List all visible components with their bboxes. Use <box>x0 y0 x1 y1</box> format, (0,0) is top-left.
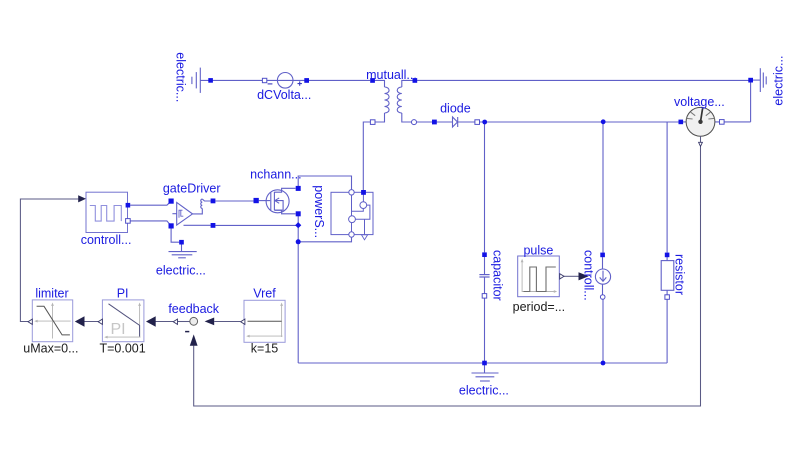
wire top-left (ground to dCVoltage) <box>200 79 262 81</box>
svg-text:nchann...: nchann... <box>250 168 301 182</box>
dc voltage source dCVoltage <box>262 73 309 89</box>
wire current source bottom <box>602 299 604 363</box>
node current source top <box>600 253 605 258</box>
node transformer n1 (open) <box>370 120 375 125</box>
wire current source branch upper <box>602 122 604 253</box>
wire resistor branch upper <box>666 122 668 253</box>
wire feedback circle to its output arrow <box>178 321 190 323</box>
wire diode to voltmeter <box>480 121 679 123</box>
wire pulse output to current source input <box>564 275 579 277</box>
node capacitor ground rail <box>482 361 487 366</box>
node gate driver out1 <box>211 199 216 204</box>
node controller fire <box>126 203 131 208</box>
node diode n (open) <box>475 120 480 125</box>
arrow into controller input <box>78 195 86 202</box>
arrow into PI input <box>146 316 156 327</box>
output arrow feedback <box>173 319 177 324</box>
gate driver (inverting driver with gate resistor) <box>172 199 210 225</box>
wire source node down to ground rail <box>297 242 299 363</box>
arrow into current source control input <box>579 272 589 280</box>
voltmeter voltage sensor <box>683 107 719 146</box>
diode <box>434 117 475 127</box>
output arrow Vref <box>241 319 245 324</box>
wire feedback output to PI input <box>155 321 174 323</box>
svg-text:electric...: electric... <box>173 52 187 102</box>
node dCVoltage p <box>304 78 309 83</box>
svg-text:feedback: feedback <box>168 302 219 316</box>
svg-text:capacitor: capacitor <box>491 250 505 301</box>
node mosfet drain <box>296 186 301 191</box>
svg-text:electric...: electric... <box>771 56 785 106</box>
wire controller fire to gate driver <box>130 201 171 205</box>
wire gate driver lower rail to mosfet source <box>215 224 298 226</box>
n-channel mosfet nchann <box>259 188 296 214</box>
node diamond junction source-driver <box>295 222 301 228</box>
wire gate driver to local ground <box>171 228 179 242</box>
ground electric2 (top right) <box>753 68 766 92</box>
wire dCVoltage to transformer p1 <box>309 79 370 81</box>
node mosfet gate <box>254 198 259 203</box>
arrow into limiter input <box>75 316 85 327</box>
node gate driver in2 <box>169 223 174 228</box>
node power sensor pv <box>361 190 366 195</box>
node resistor bottom (open) <box>665 295 670 300</box>
wire resistor bottom <box>666 299 668 363</box>
ground electric4 (under gate driver) <box>169 244 197 257</box>
node capacitor bottom (open) <box>482 294 487 299</box>
node voltmeter p <box>679 120 684 125</box>
node transformer n2 (open circle) <box>412 120 417 125</box>
svg-text:mutuall...: mutuall... <box>366 68 417 82</box>
svg-text:voltage...: voltage... <box>674 95 725 109</box>
arrow into feedback input1 <box>205 318 215 326</box>
node top right corner <box>748 78 753 83</box>
node capacitor top <box>482 252 487 257</box>
node gate driver ground <box>179 240 184 245</box>
svg-text:diode: diode <box>440 102 471 116</box>
node diode p <box>432 120 437 125</box>
ground electric1 (top left) <box>192 68 200 93</box>
wire capacitor branch upper <box>484 122 486 252</box>
Vref constant block <box>244 300 285 342</box>
wire transformer n1 down to power sensor pv <box>363 122 370 190</box>
node junction current-source-branch <box>601 119 606 124</box>
node ground1-wire <box>208 78 213 83</box>
wire Vref output to feedback input <box>214 321 240 323</box>
output arrow limiter <box>28 319 32 324</box>
svg-text:resistor: resistor <box>673 254 687 295</box>
resistor <box>661 257 674 295</box>
svg-text:PI: PI <box>117 287 129 301</box>
power sensor powerS <box>331 190 373 240</box>
svg-text:controll...: controll... <box>81 233 132 247</box>
capacitor <box>479 257 489 294</box>
ground electric3 (bottom middle) <box>472 363 499 381</box>
wire transformer p2 to right corner and down to voltmeter <box>417 80 750 122</box>
svg-text:electric...: electric... <box>156 264 206 278</box>
svg-text:Vref: Vref <box>253 286 276 300</box>
svg-text:PI: PI <box>111 321 126 338</box>
svg-text:period=...: period=... <box>513 300 565 314</box>
node dCVoltage n (open) <box>262 78 266 82</box>
output arrow pulse <box>560 274 564 279</box>
node junction rail-current-source <box>601 361 606 366</box>
wire ground rail <box>298 362 667 364</box>
wire mosfet source down to node <box>297 216 299 242</box>
wire limiter output loop to controller input <box>20 199 78 322</box>
svg-text:pulse: pulse <box>523 244 553 258</box>
wire transformer n2 to diode <box>416 121 432 123</box>
svg-text:dCVolta...: dCVolta... <box>257 88 311 102</box>
svg-text:limiter: limiter <box>35 287 68 301</box>
pulse block <box>518 256 560 297</box>
feedback comparator <box>185 317 198 331</box>
svg-text:electric...: electric... <box>459 383 509 397</box>
wire controller notFire to gate driver <box>130 221 171 226</box>
svg-text:controll...: controll... <box>582 250 596 301</box>
controlled current source controll2 <box>595 257 610 295</box>
node mosfet source <box>296 211 301 216</box>
arrow into feedback input2 (from below) <box>190 334 198 345</box>
node transformer p1 <box>370 78 375 83</box>
svg-text:k=15: k=15 <box>251 342 279 356</box>
controller PWM block controll1 <box>86 192 128 232</box>
svg-text:uMax=0...: uMax=0... <box>23 342 78 356</box>
svg-text:gateDriver: gateDriver <box>163 182 221 196</box>
wire mosfet drain to power sensor pc <box>298 176 351 190</box>
node resistor top <box>665 253 670 258</box>
svg-text:powerS...: powerS... <box>312 185 326 238</box>
node current source bottom (open circle) <box>600 295 605 300</box>
node controller notFire (open) <box>126 219 131 224</box>
SIGNAL WIRES <box>20 146 700 406</box>
mutual inductor mutuall (transformer) <box>373 80 415 122</box>
node junction source <box>296 239 301 244</box>
wire voltmeter to right riser <box>724 121 751 123</box>
wire gate driver to mosfet gate <box>215 200 253 202</box>
wire voltmeter output to feedback lower input <box>194 146 701 406</box>
node gate driver out2 <box>211 223 216 228</box>
wire source node to power sensor nc <box>298 237 351 242</box>
output arrow PI <box>98 319 102 324</box>
node transformer p2 <box>413 78 418 83</box>
limiter block <box>32 300 72 342</box>
wire PI output to limiter input <box>83 321 99 323</box>
node gate driver in1 <box>169 199 174 204</box>
node junction diode-capacitor <box>482 120 487 125</box>
node voltmeter n (open) <box>720 120 725 125</box>
wire capacitor bottom <box>484 298 486 363</box>
PI block <box>102 300 143 342</box>
svg-text:T=0.001: T=0.001 <box>99 342 145 356</box>
